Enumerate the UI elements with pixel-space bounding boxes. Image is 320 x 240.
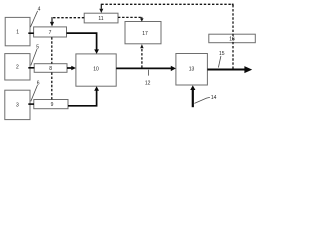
- svg-text:12: 12: [145, 81, 151, 87]
- label 5: [31, 45, 39, 66]
- svg-text:7: 7: [49, 30, 52, 36]
- label 15: [218, 51, 224, 68]
- dashed wire block11 to block17 top: [118, 17, 144, 22]
- dashed wire corner into block11 top: [99, 4, 103, 13]
- svg-text:11: 11: [98, 16, 103, 22]
- dashed wire top horizontal: [101, 3, 233, 5]
- dashed wire line12 to block17 bottom: [140, 44, 143, 68]
- svg-text:8: 8: [49, 66, 52, 72]
- wire block13 output arrow: [207, 66, 252, 73]
- wire block1 to block7: [28, 32, 34, 34]
- label 12: [145, 70, 151, 87]
- svg-text:17: 17: [142, 31, 148, 37]
- block 13: [176, 54, 208, 86]
- dashed wire block11 to block7: [50, 17, 84, 26]
- block 7: [34, 27, 67, 37]
- block 11: [84, 13, 118, 23]
- wire block9 to block10 bottom: [68, 86, 99, 106]
- svg-text:3: 3: [16, 103, 19, 109]
- wire block8 to block10 left: [67, 66, 76, 71]
- svg-text:13: 13: [189, 67, 195, 73]
- dashed wire block8 to block9: [51, 73, 53, 100]
- wire block10 to block13: [116, 66, 176, 71]
- block 8: [34, 64, 67, 73]
- svg-text:15: 15: [219, 51, 225, 57]
- svg-text:14: 14: [211, 95, 217, 101]
- svg-text:10: 10: [93, 67, 99, 73]
- block 3: [5, 90, 30, 119]
- label 6: [31, 80, 40, 101]
- wire block2 to block8: [28, 67, 34, 69]
- block 9: [34, 100, 68, 109]
- label 14: [194, 95, 216, 104]
- dashed wire vertical through block16: [232, 4, 233, 69]
- svg-text:9: 9: [51, 102, 54, 108]
- block 1: [5, 17, 30, 45]
- block 16: [209, 34, 256, 43]
- dashed wire block7 to block8: [51, 37, 53, 63]
- block 17: [125, 22, 161, 44]
- label 4: [30, 7, 40, 28]
- svg-text:1: 1: [16, 29, 19, 35]
- wire block7 to block10 top: [67, 33, 100, 54]
- svg-text:16: 16: [229, 36, 235, 42]
- block 2: [5, 54, 30, 80]
- wire block3 to block9: [28, 103, 34, 105]
- svg-text:2: 2: [16, 65, 19, 71]
- svg-text:4: 4: [38, 7, 41, 13]
- wire input 14 into block13 bottom: [190, 85, 195, 107]
- block 10: [76, 54, 116, 86]
